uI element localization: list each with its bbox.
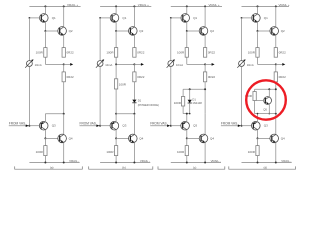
svg-text:FROM VAS: FROM VAS	[80, 121, 96, 125]
wire top tie (c)	[183, 88, 205, 90]
wire R1 bottom elbow to output node (d)	[258, 57, 276, 64]
resistor R3 0R22 (b)	[133, 72, 136, 82]
caption (d)	[263, 165, 267, 169]
label D1 (c)	[192, 97, 196, 101]
transistor Q4	[199, 134, 208, 143]
svg-text:Q2: Q2	[210, 29, 214, 33]
wire bottom tie / Q3 emitter line (d)	[255, 114, 276, 121]
wire left rail lower segment (d)	[241, 67, 243, 126]
wire Q1 base (b)	[100, 17, 112, 19]
transistor Q1	[181, 14, 190, 23]
wire output to R3 (d)	[275, 64, 277, 72]
wire V- rail (b)	[100, 162, 150, 164]
wire node down to R1 (a)	[44, 31, 46, 48]
svg-text:Q3: Q3	[52, 124, 56, 128]
svg-text:1N4148: 1N4148	[192, 101, 202, 105]
current source 10mA (d)	[237, 59, 245, 67]
wire Q4 collector (c)	[204, 114, 206, 135]
svg-text:Q5: Q5	[263, 107, 267, 111]
wire V- rail (d)	[242, 162, 292, 164]
svg-text:0R22: 0R22	[208, 75, 216, 79]
label Q3	[52, 124, 56, 128]
svg-text:100R: 100R	[248, 150, 256, 154]
node input junction (a)	[28, 125, 30, 127]
svg-text:100R: 100R	[174, 101, 182, 105]
wire Q3 emitter line to junction (a)	[45, 114, 63, 121]
svg-text:0R22: 0R22	[279, 75, 287, 79]
svg-text:Q2: Q2	[69, 29, 73, 33]
wire R5 to V- rail (d)	[257, 156, 259, 163]
label 100R bottom (c)	[177, 150, 185, 154]
resistor R1 100R (d)	[256, 48, 259, 58]
resistor R2 0R22 (b)	[133, 48, 136, 58]
wire Q4 emitter to V- rail (a)	[63, 143, 65, 163]
node top tie at Q5 collector (d)	[268, 88, 270, 90]
svg-text:VRAIL +: VRAIL +	[138, 3, 149, 7]
wire Q2 collector to rail (b)	[133, 6, 135, 27]
label 0R22 lower (d)	[279, 75, 287, 79]
wire node to Q2 base (a)	[45, 30, 59, 32]
svg-text:D1: D1	[138, 98, 142, 102]
wire FROM VAS input (a)	[9, 125, 27, 127]
net label VRAIL + (b)	[138, 3, 149, 7]
input arrow (c)	[167, 124, 170, 127]
svg-text:100R: 100R	[248, 51, 256, 55]
label Q3	[264, 124, 268, 128]
wire input to Q3 base (b)	[100, 125, 112, 127]
wire Q4 collector (b)	[133, 114, 135, 135]
node V- rail at R5 (c)	[186, 162, 188, 164]
svg-text:VRAIL +: VRAIL +	[208, 3, 219, 7]
caption (a)	[50, 165, 54, 169]
wire Q3 emitter line to junction (b)	[116, 114, 134, 121]
node V+ rail junction at Q2 collector (d)	[275, 5, 277, 7]
node output junction (c)	[204, 63, 206, 65]
wire R3 down to top tie (d)	[275, 82, 277, 114]
bracket (d)	[229, 166, 296, 169]
svg-text:0R22: 0R22	[67, 75, 75, 79]
transistor Q3	[252, 121, 261, 130]
wire Q5 emitter stub (d)	[268, 104, 270, 113]
wire R5 to V- rail (a)	[44, 156, 46, 163]
resistor R1 100R (a)	[44, 48, 47, 58]
net label VRAIL - (a)	[69, 159, 79, 163]
label 0R22 lower (c)	[208, 75, 216, 79]
svg-text:10mA: 10mA	[105, 63, 112, 67]
node Q3 collector / Q4 base junction (c)	[186, 137, 188, 139]
label 0R22 lower (a)	[67, 75, 75, 79]
svg-text:VRAIL -: VRAIL -	[281, 159, 291, 163]
output arrow (d)	[282, 63, 285, 66]
node V- rail at Q4 emitter (c)	[204, 162, 206, 164]
wire Q2 emitter to R2 (d)	[275, 35, 277, 48]
wire output to R3 (c)	[204, 64, 206, 72]
label 100R (c)	[177, 51, 185, 55]
wire R3 down through tie to Q4 collector (c)	[204, 82, 206, 114]
transistor Q2	[58, 27, 67, 36]
wire left rail upper segment (a)	[28, 18, 30, 61]
wire output stub (a)	[64, 63, 71, 65]
resistor R5 100R (b)	[114, 146, 117, 156]
bracket (a)	[15, 166, 83, 169]
node input junction (b)	[99, 125, 101, 127]
svg-text:VRAIL -: VRAIL -	[69, 159, 79, 163]
transistor Q2	[199, 27, 208, 36]
wire Q1 base (a)	[29, 17, 41, 19]
label 100R (b)	[106, 51, 114, 55]
node Q1 base elbow (c)	[170, 17, 172, 19]
label 100R bottom (d)	[248, 150, 256, 154]
resistor R1 100R (c)	[185, 48, 188, 58]
node V- rail at R5 (b)	[115, 162, 117, 164]
input arrow (a)	[26, 124, 29, 127]
wire left rail lower segment (a)	[28, 67, 30, 126]
node V- rail at Q4 emitter (b)	[133, 162, 135, 164]
wire V+ rail cell (d)	[242, 5, 289, 7]
node top tie at diode (c)	[189, 88, 191, 90]
wire Q1 emitter to node (b)	[115, 22, 117, 31]
wire Q4 emitter to V- rail (d)	[275, 143, 277, 163]
resistor R4 100R (b)	[114, 79, 117, 89]
label 10mA (a)	[35, 63, 42, 67]
wire Q3 collector to node D (b)	[115, 130, 117, 139]
node V- rail at Q4 emitter (d)	[275, 162, 277, 164]
wire left rail upper segment (b)	[99, 18, 101, 61]
net label VRAIL - (d)	[281, 159, 291, 163]
node Q1 base elbow (b)	[99, 17, 101, 19]
wire node to Q2 base (b)	[116, 30, 130, 32]
wire V- rail (c)	[171, 162, 221, 164]
node V+ rail junction at Q1 collector (d)	[257, 5, 259, 7]
wire R5 to V- rail (b)	[115, 156, 117, 163]
resistor R4 100R (d)	[253, 89, 256, 113]
node V+ rail junction at Q2 collector (a)	[63, 5, 65, 7]
net label VRAIL - (b)	[140, 159, 150, 163]
svg-text:VRAIL -: VRAIL -	[140, 159, 150, 163]
node V- rail at R5 (a)	[44, 162, 46, 164]
node Q3 emitter junction (b)	[115, 113, 117, 115]
transistor Q1	[110, 14, 119, 23]
label 0R22 (c)	[208, 51, 216, 55]
resistor R1 100R (b)	[114, 48, 117, 58]
wire node down to R1 (b)	[115, 31, 117, 48]
label 0R22 (a)	[67, 51, 75, 55]
diode D1 power diode (b)	[132, 100, 136, 103]
label 100R (c)	[174, 101, 182, 105]
svg-text:100R: 100R	[177, 150, 185, 154]
node V- rail at Q4 emitter (a)	[63, 162, 65, 164]
input arrow (d)	[238, 124, 241, 127]
node Q1 emitter / Q2 base junction (b)	[115, 30, 117, 32]
transistor Q3	[39, 121, 48, 130]
node output junction (b)	[133, 63, 135, 65]
node collector junction (b)	[133, 113, 135, 115]
svg-text:Q1: Q1	[52, 16, 56, 20]
node Q3 collector / Q4 base junction (a)	[44, 137, 46, 139]
node bottom tie at Q5 emitter (d)	[269, 113, 271, 115]
wire Q4 collector (d)	[275, 114, 277, 135]
wire Q2 collector to rail (d)	[275, 6, 277, 27]
wire Q3 collector to node D (a)	[44, 130, 46, 139]
wire left rail lower segment (b)	[99, 67, 101, 126]
wire Q1 collector to rail (a)	[44, 6, 46, 13]
wire node D to R5 (d)	[257, 138, 259, 145]
bracket (b)	[89, 166, 153, 169]
wire R1 bottom elbow to output node (c)	[187, 57, 205, 64]
svg-text:(POWER DIODE): (POWER DIODE)	[138, 103, 159, 107]
label 1N4148 (c)	[192, 101, 202, 105]
wire node to Q2 base (d)	[258, 30, 272, 32]
svg-text:0R22: 0R22	[137, 75, 145, 79]
diode D1 1N4148 (c)	[188, 89, 192, 113]
wire Q4 emitter to V- rail (b)	[133, 143, 135, 163]
label Q1	[122, 16, 126, 20]
svg-text:FROM VAS: FROM VAS	[150, 121, 166, 125]
label Q2	[210, 29, 214, 33]
wire V+ rail cell (a)	[29, 5, 80, 7]
resistor R2 0R22 (c)	[203, 48, 206, 58]
wire input to Q3 base (a)	[29, 125, 41, 127]
transistor Q4	[270, 134, 279, 143]
wire FROM VAS input (b)	[80, 125, 98, 127]
node bottom tie at diode (c)	[189, 113, 191, 115]
node Q3 collector / Q4 base junction (b)	[115, 137, 117, 139]
resistor R3 0R22 (a)	[62, 72, 65, 82]
svg-text:VRAIL -: VRAIL -	[211, 159, 221, 163]
wire FROM VAS input (d)	[221, 125, 239, 127]
net label VRAIL + (c)	[208, 3, 219, 7]
label Q2	[139, 29, 143, 33]
label 100R (d)	[245, 94, 253, 98]
wire Q2 emitter to R2 (c)	[204, 35, 206, 48]
label 10mA (d)	[247, 63, 254, 67]
svg-text:0R22: 0R22	[67, 51, 75, 55]
resistor R5 100R (d)	[256, 146, 259, 156]
transistor Q5	[264, 97, 272, 105]
svg-text:Q3: Q3	[122, 124, 126, 128]
transistor Q4	[129, 134, 138, 143]
svg-text:100R: 100R	[119, 83, 127, 87]
wire V+ rail cell (b)	[100, 5, 151, 7]
wire node D to R5 (c)	[186, 138, 188, 145]
wire node D to R5 (a)	[44, 138, 46, 145]
label 10mA (c)	[176, 63, 183, 67]
label Q1	[193, 16, 197, 20]
wire node to Q4 base (a)	[45, 137, 59, 139]
wire Q4 collector (a)	[63, 114, 65, 135]
wire diode to collector junction (b)	[133, 103, 135, 114]
svg-text:0R22: 0R22	[137, 51, 145, 55]
node bottom tie at Q3 emitter (d)	[257, 113, 259, 115]
label 100R bottom (a)	[36, 150, 44, 154]
node top tie at column B (c)	[204, 88, 206, 90]
wire node to Q4 base (b)	[116, 137, 130, 139]
label 100R (b)	[119, 83, 127, 87]
node V+ rail junction at Q1 collector (a)	[44, 5, 46, 7]
wire R3 down to collector junction (a)	[63, 82, 65, 114]
node input junction (c)	[170, 125, 172, 127]
output arrow (a)	[70, 63, 73, 66]
wire output stub (d)	[276, 63, 283, 65]
wire input to Q3 base (c)	[171, 125, 183, 127]
wire output node down to R4 (b)	[115, 64, 117, 78]
label Q1	[264, 16, 268, 20]
wire R1 bottom elbow to output node (b)	[116, 57, 134, 64]
svg-text:FROM VAS: FROM VAS	[9, 121, 25, 125]
wire V- rail (a)	[29, 162, 79, 164]
wire V+ rail cell (c)	[171, 5, 222, 7]
label Q4	[139, 137, 143, 141]
label FROM VAS (c)	[150, 121, 166, 125]
resistor R2 0R22 (d)	[274, 48, 277, 58]
svg-text:Q1: Q1	[193, 16, 197, 20]
transistor Q3	[110, 121, 119, 130]
svg-text:100R: 100R	[177, 51, 185, 55]
wire left rail upper segment (c)	[170, 18, 172, 61]
wire node to Q2 base (c)	[187, 30, 201, 32]
svg-text:(d): (d)	[263, 165, 267, 169]
label D1 (b)	[138, 98, 142, 102]
svg-text:Q4: Q4	[281, 137, 285, 141]
wire node to Q4 base (d)	[258, 137, 272, 139]
wire R1 bottom elbow to output node (a)	[45, 57, 63, 64]
transistor Q1	[252, 14, 261, 23]
wire node down to R1 (d)	[257, 31, 259, 48]
svg-text:VRAIL +: VRAIL +	[278, 3, 289, 7]
svg-text:Q3: Q3	[193, 124, 197, 128]
wire output to R3 (a)	[63, 64, 65, 72]
label Q4	[69, 137, 73, 141]
wire node to Q4 base (c)	[187, 137, 201, 139]
transistor Q1	[40, 14, 49, 23]
resistor R3 0R22 (c)	[203, 72, 206, 82]
svg-text:VRAIL +: VRAIL +	[67, 3, 78, 7]
wire R4 to emitter node (b)	[115, 89, 117, 114]
label 100R (d)	[248, 51, 256, 55]
wire Q1 emitter to node (d)	[257, 22, 259, 31]
resistor R5 100R (a)	[44, 146, 47, 156]
resistor R2 0R22 (a)	[62, 48, 65, 58]
resistor R3 0R22 (d)	[274, 72, 277, 82]
node bottom tie at Q3 emitter (c)	[186, 113, 188, 115]
resistor R5 100R (c)	[185, 146, 188, 156]
label 100R bottom (b)	[106, 150, 114, 154]
node V+ rail junction at Q1 collector (c)	[186, 5, 188, 7]
label Q1	[52, 16, 56, 20]
label Q3	[193, 124, 197, 128]
transistor Q2	[270, 27, 279, 36]
net label VRAIL - (c)	[211, 159, 221, 163]
wire Q2 emitter to R2 (a)	[63, 35, 65, 48]
svg-text:Q4: Q4	[210, 137, 214, 141]
wire node D to R5 (b)	[115, 138, 117, 145]
wire Q3 collector to node D (c)	[186, 130, 188, 139]
wire left rail upper segment (d)	[241, 18, 243, 61]
node output junction (a)	[63, 63, 65, 65]
net label VRAIL + (d)	[278, 3, 289, 7]
svg-text:100R: 100R	[36, 150, 44, 154]
svg-text:Q3: Q3	[264, 124, 268, 128]
label FROM VAS (b)	[80, 121, 96, 125]
svg-text:0R22: 0R22	[208, 51, 216, 55]
net label VRAIL + (a)	[67, 3, 78, 7]
wire bottom tie (c)	[183, 114, 190, 121]
caption (b)	[122, 165, 126, 169]
wire R5 to V- rail (c)	[186, 156, 188, 163]
wire Q2 collector to rail (c)	[204, 6, 206, 27]
wire Q5 collector stub (d)	[268, 89, 270, 97]
svg-text:FROM VAS: FROM VAS	[221, 121, 237, 125]
svg-text:Q4: Q4	[139, 137, 143, 141]
label Q3	[122, 124, 126, 128]
wire output to R3 (b)	[133, 64, 135, 72]
current source 10mA (a)	[25, 59, 33, 67]
label FROM VAS (a)	[9, 121, 25, 125]
red highlight circle annotation	[246, 80, 286, 119]
label Q4	[210, 137, 214, 141]
label 10mA (b)	[105, 63, 112, 67]
resistor R4 100R parallel (c)	[181, 89, 184, 113]
svg-text:100R: 100R	[36, 51, 44, 55]
wire Q2 collector to rail (a)	[63, 6, 65, 27]
wire Q5 base (d)	[256, 100, 264, 102]
node Q1 base elbow (a)	[29, 17, 31, 19]
svg-text:(c): (c)	[193, 165, 197, 169]
label Q2	[281, 29, 285, 33]
wire Q1 base (c)	[171, 17, 183, 19]
wire R3 down to diode (b)	[133, 82, 135, 100]
svg-text:(a): (a)	[50, 165, 54, 169]
transistor Q2	[129, 27, 138, 36]
label Q4	[281, 137, 285, 141]
svg-text:10mA: 10mA	[247, 63, 254, 67]
output arrow (b)	[141, 63, 144, 66]
svg-text:0R22: 0R22	[279, 51, 287, 55]
svg-text:Q1: Q1	[122, 16, 126, 20]
node collector junction (d)	[275, 113, 277, 115]
wire input to Q3 base (d)	[242, 125, 254, 127]
node Q1 emitter / Q2 base junction (d)	[257, 30, 259, 32]
wire FROM VAS input (c)	[150, 125, 168, 127]
node Q1 emitter / Q2 base junction (a)	[44, 30, 46, 32]
node collector junction (a)	[63, 113, 65, 115]
node V+ rail junction at Q2 collector (b)	[133, 5, 135, 7]
wire output stub (b)	[134, 63, 141, 65]
wire Q1 collector to rail (c)	[186, 6, 188, 13]
svg-text:(b): (b)	[122, 165, 126, 169]
node Q1 base elbow (d)	[241, 17, 243, 19]
wire Q1 emitter to node (a)	[44, 22, 46, 31]
svg-text:Q4: Q4	[69, 137, 73, 141]
label Q5	[263, 107, 267, 111]
transistor Q4	[58, 134, 67, 143]
svg-text:Q2: Q2	[139, 29, 143, 33]
node Q1 emitter / Q2 base junction (c)	[186, 30, 188, 32]
node top tie at column B (d)	[275, 88, 277, 90]
current source 10mA (b)	[96, 59, 104, 67]
label Q2	[69, 29, 73, 33]
label 0R22 lower (b)	[137, 75, 145, 79]
label FROM VAS (d)	[221, 121, 237, 125]
label POWER DIODE (b)	[138, 103, 159, 107]
transistor Q3	[181, 121, 190, 130]
node Q3 collector / Q4 base junction (d)	[257, 137, 259, 139]
wire Q3 collector to node D (d)	[257, 130, 259, 139]
wire node down to R1 (c)	[186, 31, 188, 48]
svg-text:100R: 100R	[106, 51, 114, 55]
node V+ rail junction at Q1 collector (b)	[115, 5, 117, 7]
wire Q1 emitter to node (c)	[186, 22, 188, 31]
